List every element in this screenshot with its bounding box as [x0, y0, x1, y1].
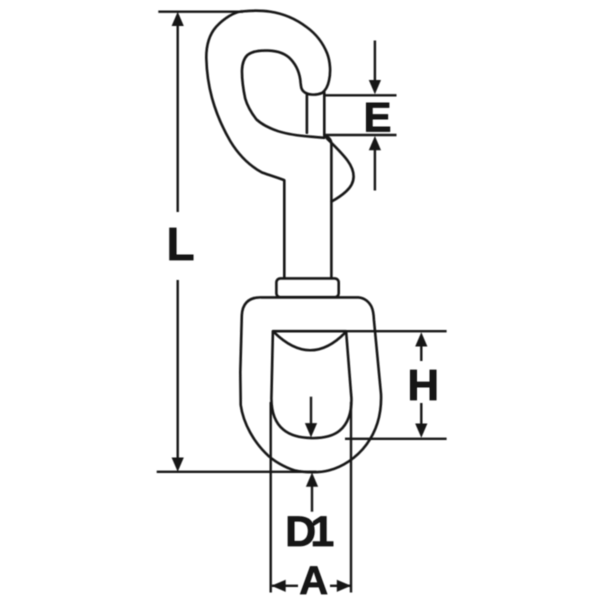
thumb tab bump	[327, 138, 354, 201]
E lower arrow shaft	[374, 150, 376, 191]
E upper arrow shaft	[374, 41, 376, 82]
gate (snap bolt) left line	[306, 95, 309, 132]
A dimension line right segment	[330, 585, 351, 587]
A left arrowhead	[271, 580, 285, 592]
L bottom arrowhead	[172, 458, 184, 472]
D1 lower arrow shaft (below eye)	[311, 486, 313, 512]
svg-text:H: H	[407, 361, 439, 410]
H top extension line (hole top edge extended)	[273, 330, 447, 332]
eye outer contour	[240, 297, 381, 472]
D1 upper arrow shaft (inside hole)	[310, 397, 312, 424]
H upper arrowhead	[415, 332, 427, 346]
svg-text:E: E	[363, 94, 391, 141]
svg-text:L: L	[166, 218, 194, 270]
eye inner hole	[271, 331, 351, 438]
H upper arrow shaft	[420, 345, 422, 361]
E top extension line	[324, 94, 396, 96]
E bottom extension line	[324, 134, 396, 136]
A right arrowhead	[337, 580, 351, 592]
H lower arrowhead	[415, 424, 427, 438]
body right edge below gate	[324, 136, 331, 278]
H lower arrow shaft	[420, 403, 422, 425]
E lower arrowhead	[369, 136, 381, 150]
inner hole top arc (front lip)	[274, 332, 345, 350]
svg-text:A: A	[299, 559, 328, 600]
A right extension line	[350, 402, 352, 593]
A left extension line	[270, 402, 272, 593]
hook outer+inner contour (snap hook arm with tip)	[241, 11, 330, 138]
swivel collar	[276, 278, 338, 297]
L dimension line upper segment	[176, 25, 178, 212]
D1 down arrowhead (inside hole)	[305, 423, 317, 437]
L dimension line lower segment	[176, 280, 178, 459]
A dimension line left segment	[272, 585, 298, 587]
D1 up arrowhead (below eye)	[306, 473, 318, 487]
gate (snap bolt) right line	[323, 93, 326, 136]
L top arrowhead	[172, 12, 184, 26]
svg-text:1: 1	[310, 508, 334, 556]
hook outer-left side merging into shank left edge	[206, 12, 284, 278]
L top extension line	[158, 10, 243, 12]
L bottom extension line	[157, 471, 317, 473]
H bottom extension line	[345, 438, 447, 440]
E upper arrowhead	[369, 80, 381, 94]
